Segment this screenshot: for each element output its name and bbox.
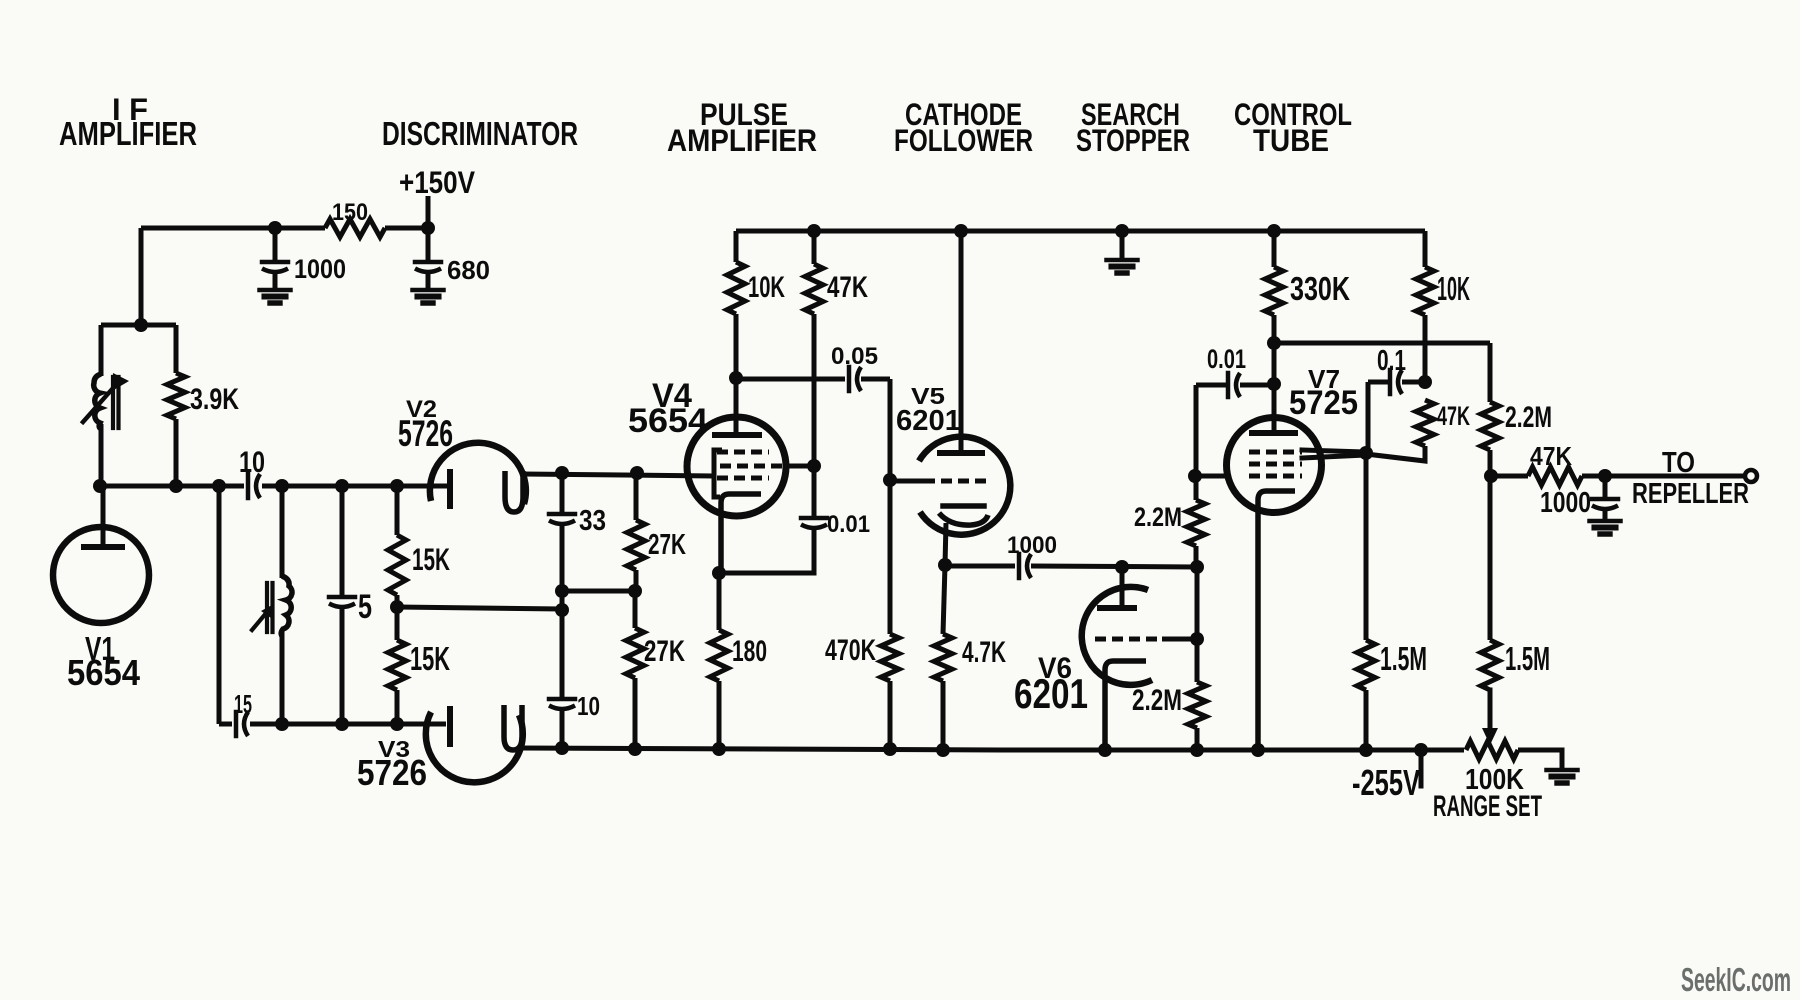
svg-text:6201: 6201 <box>1014 671 1088 717</box>
wire 0.01 upper lead <box>812 466 817 518</box>
wire left rail b <box>262 484 447 489</box>
junction rail x635 <box>628 742 642 756</box>
capacitor 0.1 <box>1390 370 1402 394</box>
tube V4 grid row 3 <box>717 476 769 481</box>
junction rail x890 <box>883 742 897 756</box>
tube V7 grid row 3 <box>1249 474 1302 479</box>
wire V7 grid2 exit upper <box>1302 450 1366 452</box>
junction rail x719 <box>712 742 726 756</box>
wire 680-cap to ground <box>426 272 431 290</box>
wire screen feed right <box>1274 341 1490 346</box>
tube V4 envelope <box>687 417 786 516</box>
svg-text:33: 33 <box>579 505 606 537</box>
resistor 330K <box>1265 267 1283 315</box>
wire trimmer lower <box>280 630 285 724</box>
junction V7 grid2 node <box>1359 446 1373 460</box>
wire 180 bottom <box>717 681 722 750</box>
wire V5 cathode lead <box>945 523 946 565</box>
junction rail x1108 <box>1098 743 1112 757</box>
junction repeller node <box>1484 469 1498 483</box>
svg-text:STOPPER: STOPPER <box>1076 123 1190 158</box>
svg-text:2.2M: 2.2M <box>1134 501 1182 532</box>
junction V4 plate node <box>729 371 743 385</box>
svg-text:2.2M: 2.2M <box>1505 401 1552 434</box>
wire repeller right <box>1605 474 1745 479</box>
wire repeller left <box>1491 474 1528 479</box>
junction 0.1 node <box>1418 375 1432 389</box>
svg-text:SeekIC.com: SeekIC.com <box>1681 961 1791 998</box>
junction x219 top <box>212 479 226 493</box>
resistor 47K (V7 feedback) <box>1416 400 1434 446</box>
wire 1000-cap left <box>945 564 1015 569</box>
junction 2.2M mid node <box>1190 560 1204 574</box>
svg-text:10K: 10K <box>1437 270 1470 307</box>
svg-text:AMPLIFIER: AMPLIFIER <box>667 123 817 158</box>
resistor 10K right <box>1416 267 1434 315</box>
inductor L2 adjustable (discriminator) <box>252 576 292 636</box>
wire 0.01 lower lead <box>719 527 814 573</box>
wire 3.9K bottom <box>174 419 179 486</box>
svg-text:TUBE: TUBE <box>1253 123 1329 158</box>
wire +150V lead <box>426 196 431 228</box>
tube V5 plate bar <box>940 450 982 456</box>
tube V3 cathode <box>504 705 522 750</box>
wire -255V tick <box>1419 750 1424 786</box>
junction 3.9K bottom <box>169 479 183 493</box>
junction x562 y591 <box>555 584 569 598</box>
svg-text:AMPLIFIER: AMPLIFIER <box>59 115 197 152</box>
capacitor 1000 (search stopper) <box>1019 554 1031 578</box>
wire B+ bus <box>736 229 1425 234</box>
tube V4 grid row 2 <box>720 464 786 469</box>
resistor 15K upper <box>388 535 406 595</box>
tube V2 cathode <box>505 471 523 512</box>
capacitor 10 (series coupling) <box>248 474 260 498</box>
svg-text:27K: 27K <box>644 635 685 668</box>
svg-text:10K: 10K <box>748 271 785 304</box>
wire lower rail b <box>250 722 446 727</box>
junction +150V node <box>421 221 435 235</box>
wire 4.7K bottom <box>941 681 946 750</box>
wire V7 plate lead <box>1272 343 1277 433</box>
svg-text:+150V: +150V <box>399 165 475 200</box>
wire 15K lower lead <box>395 690 400 724</box>
ground below 1000 cap <box>260 290 291 303</box>
wire 5-cap lower <box>340 607 345 724</box>
wire 2.2M upper top lead <box>1194 476 1199 500</box>
resistor 47K repeller <box>1528 467 1582 485</box>
wire V7 grid entry <box>1195 474 1230 479</box>
svg-text:-255V: -255V <box>1352 763 1420 803</box>
junction V4 grid2 node <box>807 459 821 473</box>
wire 0.1 left <box>1368 380 1388 385</box>
svg-text:15: 15 <box>234 691 252 719</box>
tube V1 plate bar <box>84 544 122 550</box>
tube V7 grid row 1 <box>1249 450 1302 455</box>
wiper arrow (range set) <box>1482 728 1498 745</box>
capacitor 0.01 (V4) <box>801 518 827 528</box>
wire 0.01 V7 down <box>1194 385 1199 476</box>
wire 1.5M left top <box>1364 453 1369 640</box>
svg-text:5726: 5726 <box>357 753 427 793</box>
svg-text:15K: 15K <box>412 542 450 577</box>
tube V2 plate bar <box>447 472 453 506</box>
capacitor 0.01 (V7) <box>1228 373 1240 397</box>
svg-text:2.2M: 2.2M <box>1132 684 1182 717</box>
tube V4 grid bracket <box>714 450 722 497</box>
wire V7 grid2 exit lower <box>1302 455 1366 458</box>
wire 330K bottom lead <box>1272 315 1277 343</box>
capacitor 15 (series) <box>236 712 248 736</box>
svg-text:0.01: 0.01 <box>1207 343 1246 374</box>
tube V7 plate bar <box>1252 430 1295 436</box>
tube V6 cathode <box>1105 661 1146 750</box>
junction V7 grid node <box>1188 469 1202 483</box>
tube V4 cathode <box>721 494 761 573</box>
wire V4 grid2 exit <box>786 464 814 469</box>
wire 10K top lead <box>734 231 739 262</box>
wire 2.2M lower top lead <box>1195 639 1200 682</box>
wire 47K bottom lead <box>812 314 817 466</box>
wire discriminator output mid <box>397 607 562 609</box>
capacitor 1000 (B+ filter) <box>262 262 288 272</box>
wire bus ground stub <box>1120 231 1125 259</box>
wire rail to ground <box>1518 750 1562 770</box>
wire 2.2M link <box>1195 567 1200 639</box>
wire 47K top lead <box>812 231 817 264</box>
svg-text:330K: 330K <box>1290 270 1350 307</box>
wire tank left upper <box>99 325 104 376</box>
junction rail x1366 <box>1359 743 1373 757</box>
terminal TO REPELLER <box>1745 470 1757 482</box>
wire V5 grid entry <box>890 479 924 484</box>
junction 15K top <box>390 479 404 493</box>
junction rail -255V tap <box>1414 743 1428 757</box>
wire 330K top lead <box>1272 231 1277 267</box>
tube V7 cathode <box>1258 491 1295 750</box>
wire 0.05 down to V5 grid <box>888 379 893 480</box>
wire tank left lower <box>99 424 104 486</box>
junction V7 plate node <box>1267 377 1281 391</box>
wire 470K top <box>888 480 893 634</box>
wire 2.2M right bottom lead <box>1488 450 1493 476</box>
svg-text:470K: 470K <box>825 634 876 667</box>
tube V6 plate bar <box>1100 605 1134 611</box>
tube V4 plate bar <box>715 432 759 438</box>
svg-text:1000: 1000 <box>294 253 346 284</box>
junction 1000-cap node <box>268 221 282 235</box>
ground below 680 cap <box>413 290 444 303</box>
junction 5-cap bottom <box>335 717 349 731</box>
wire 3.9K top <box>174 325 179 373</box>
wire 2.2M upper bottom lead <box>1194 546 1199 567</box>
tube V6 grid row <box>1095 637 1162 642</box>
resistor 1.5M right <box>1481 640 1499 690</box>
wire 1000-cap to ground <box>273 272 278 290</box>
wire V6 plate lead <box>1120 567 1125 608</box>
junction bus 330K <box>1267 224 1281 238</box>
wire 2.2M lower bottom lead <box>1195 728 1200 750</box>
svg-text:15K: 15K <box>410 640 450 677</box>
svg-text:10: 10 <box>577 693 600 721</box>
svg-text:47K: 47K <box>1530 443 1572 471</box>
svg-text:1.5M: 1.5M <box>1505 640 1550 677</box>
svg-text:180: 180 <box>732 635 767 668</box>
resistor 1.5M left <box>1357 640 1375 690</box>
junction rail x1197 <box>1190 743 1204 757</box>
svg-text:47K: 47K <box>1437 400 1470 431</box>
wire 0.05 right <box>861 377 890 382</box>
wire V5 plate lead <box>959 231 964 453</box>
wire 1.5M right to wiper <box>1488 690 1493 731</box>
wire 1.5M right top <box>1488 476 1493 640</box>
junction repeller cap node <box>1598 469 1612 483</box>
capacitor 10 (discriminator) <box>549 699 575 709</box>
resistor 3.9K <box>167 373 185 419</box>
tube V6 envelope <box>1082 587 1152 685</box>
svg-text:10: 10 <box>239 446 265 479</box>
svg-text:27K: 27K <box>648 529 686 561</box>
junction V5 cathode node <box>938 558 952 572</box>
svg-text:6201: 6201 <box>896 405 961 437</box>
svg-text:1000: 1000 <box>1540 487 1591 519</box>
junction 27K mid <box>628 584 642 598</box>
wire 680-cap stem <box>426 228 431 262</box>
junction bus 47K <box>807 224 821 238</box>
wire lower rail a <box>219 722 232 727</box>
junction V6 grid node <box>1190 632 1204 646</box>
wire repeller cap stem <box>1603 476 1608 499</box>
junction 330K bottom <box>1267 336 1281 350</box>
svg-text:47K: 47K <box>827 271 868 304</box>
ground at range set <box>1547 770 1578 783</box>
junction 27K top <box>630 466 644 480</box>
junction 5-cap top <box>335 479 349 493</box>
tube V7 grid row 2 <box>1249 462 1302 467</box>
svg-text:0.01: 0.01 <box>827 511 870 538</box>
junction 15K midpoint <box>390 600 404 614</box>
junction V4 cathode node <box>712 566 726 580</box>
svg-text:5726: 5726 <box>398 412 453 454</box>
wire 27K upper lead <box>634 474 639 520</box>
capacitor 33 <box>549 514 575 524</box>
wire V4 plate lead <box>734 378 739 435</box>
junction 15K bottom <box>390 717 404 731</box>
tube V5 cathode <box>939 506 988 525</box>
wire 0.01 V7 left <box>1196 383 1226 388</box>
junction x562 y610 <box>555 603 569 617</box>
wire 180 top <box>717 573 722 630</box>
wire 27K lower bottom <box>633 678 638 750</box>
capacitor 1000 (repeller) <box>1592 499 1618 509</box>
wire 27K upper bottom <box>634 570 639 591</box>
resistor 27K lower <box>626 628 644 678</box>
tube V3 plate bar <box>447 709 453 744</box>
wire bottom rail <box>520 748 1464 750</box>
wire 0.1 down <box>1366 382 1371 452</box>
svg-text:5725: 5725 <box>1289 384 1358 422</box>
wire down x219 <box>217 486 222 724</box>
capacitor 680 <box>415 262 441 272</box>
wire 4.7K top <box>943 565 945 634</box>
junction tank top <box>134 318 148 332</box>
tube V4 grid row 1 <box>717 450 769 455</box>
wire 1000-cap right <box>1031 566 1197 567</box>
junction bus ground <box>1115 224 1129 238</box>
svg-text:RANGE SET: RANGE SET <box>1433 790 1542 823</box>
junction V6 plate node <box>1115 560 1129 574</box>
wire 0.1 right <box>1402 380 1425 385</box>
wire repeller mid <box>1582 474 1600 479</box>
wire 1000-cap stem <box>273 228 278 262</box>
junction bus V5 plate <box>954 224 968 238</box>
svg-text:DISCRIMINATOR: DISCRIMINATOR <box>382 115 578 152</box>
wire left rail a <box>100 484 244 489</box>
svg-text:0.05: 0.05 <box>831 343 878 370</box>
tube V5 grid row <box>924 479 988 484</box>
ground below repeller cap <box>1590 521 1621 534</box>
tube V5 envelope <box>919 437 1010 535</box>
wire top-left horizontal <box>141 226 325 231</box>
tube V7 envelope <box>1227 418 1322 513</box>
wire repeller cap to ground <box>1603 508 1608 521</box>
junction rail x1258 <box>1251 743 1265 757</box>
resistor 2.2M right <box>1481 402 1499 450</box>
svg-text:680: 680 <box>447 257 490 285</box>
wire feed down to IF tank <box>139 228 144 325</box>
capacitor 5 <box>329 597 355 607</box>
svg-text:5654: 5654 <box>67 653 140 693</box>
svg-text:1.5M: 1.5M <box>1380 640 1427 677</box>
wire between 15K resistors <box>395 595 400 640</box>
potentiometer 100K (range set) <box>1466 741 1518 759</box>
resistor 4.7K <box>934 634 952 681</box>
wire 10-cap to rail <box>560 708 565 750</box>
resistor 27K upper <box>627 520 645 570</box>
wire V1 plate lead <box>101 486 106 547</box>
wire y591 link <box>562 589 635 594</box>
svg-text:5: 5 <box>358 588 372 626</box>
ground on bus (search stopper) <box>1107 260 1138 273</box>
svg-text:REPELLER: REPELLER <box>1632 478 1749 510</box>
junction V5 grid node <box>883 473 897 487</box>
resistor 2.2M upper <box>1187 500 1205 546</box>
wire trimmer upper <box>280 486 285 578</box>
resistor 180 <box>710 630 728 681</box>
resistor 2.2M lower <box>1188 682 1206 728</box>
wire grid2 to 47K <box>1366 446 1425 461</box>
junction rail x943 <box>936 743 950 757</box>
wire V2 cathode to V4 grid <box>523 474 714 476</box>
wire 0.05 left <box>736 377 845 382</box>
junction trimmer bottom <box>275 717 289 731</box>
wire 33-cap lower <box>560 523 565 699</box>
tube V2 envelope <box>430 443 526 504</box>
capacitor 0.05 (coupling) <box>849 367 861 391</box>
wire 5-cap upper <box>340 486 345 597</box>
wire 10K bottom lead <box>734 314 739 378</box>
tube V3 envelope <box>426 712 523 782</box>
resistor 10K (V4 plate) <box>727 262 745 314</box>
wire 33-cap upper <box>560 474 565 514</box>
junction rail x562 <box>555 741 569 755</box>
svg-text:1000: 1000 <box>1007 532 1057 559</box>
resistor 15K lower <box>388 640 406 690</box>
inductor L1 adjustable (IF tank) <box>83 373 129 429</box>
wire 10K right bottom lead <box>1423 315 1428 382</box>
svg-text:3.9K: 3.9K <box>190 383 239 416</box>
svg-text:FOLLOWER: FOLLOWER <box>894 123 1033 158</box>
wire 2.2M right top lead <box>1488 343 1493 402</box>
wire 27K lower lead <box>633 591 638 628</box>
wire 470K bottom <box>888 681 893 750</box>
svg-text:TO: TO <box>1662 447 1695 479</box>
wire tank top rail <box>101 323 176 328</box>
svg-text:4.7K: 4.7K <box>962 636 1006 669</box>
resistor 470K <box>881 634 899 681</box>
wire 150 to +150V node <box>385 226 428 231</box>
wire V6 grid exit <box>1162 637 1197 642</box>
resistor 47K (V4) <box>805 264 823 314</box>
wire 15K upper lead <box>395 486 400 535</box>
tube V1 envelope <box>53 527 149 623</box>
junction tank bottom-left <box>93 479 107 493</box>
svg-text:150: 150 <box>332 199 368 226</box>
junction 33-cap top <box>555 466 569 480</box>
wire 10K right top lead <box>1423 231 1428 267</box>
junction trimmer top <box>275 479 289 493</box>
wire 1.5M left bottom <box>1364 690 1369 750</box>
resistor R 150 body <box>325 219 385 237</box>
wire 0.01 V7 right <box>1240 383 1274 388</box>
